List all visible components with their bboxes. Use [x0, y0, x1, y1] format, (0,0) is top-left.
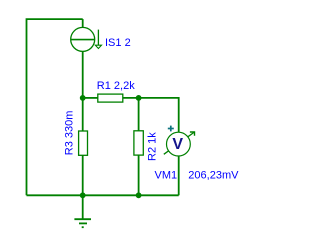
resistor R1	[83, 94, 139, 102]
wire: node B to voltmeter branch	[139, 98, 179, 133]
voltmeter VM1	[164, 126, 195, 156]
svg-text:V: V	[172, 136, 183, 153]
current source IS1	[71, 27, 102, 51]
svg-text:VM1: VM1	[155, 169, 178, 181]
svg-text:206,23mV: 206,23mV	[188, 169, 239, 181]
resistor R2	[134, 98, 143, 195]
resistor R3	[79, 98, 88, 195]
node A junction dot	[80, 95, 86, 101]
svg-text:R2 1k: R2 1k	[146, 132, 158, 161]
svg-text:R1 2,2k: R1 2,2k	[97, 80, 135, 92]
ground	[74, 195, 91, 227]
junction dot bottom left	[80, 192, 86, 198]
junction dot bottom right	[136, 192, 142, 198]
node B junction dot	[136, 95, 142, 101]
wire: voltmeter to bottom	[178, 156, 180, 195]
wire: top into current source	[82, 19, 84, 28]
wire: current source to node A	[82, 51, 84, 98]
svg-text:IS1 2: IS1 2	[105, 37, 131, 49]
wire: bottom rail	[27, 194, 179, 196]
svg-text:R3 330m: R3 330m	[63, 111, 75, 156]
wire: left loop (left vertical + top horizontal)	[27, 19, 83, 195]
